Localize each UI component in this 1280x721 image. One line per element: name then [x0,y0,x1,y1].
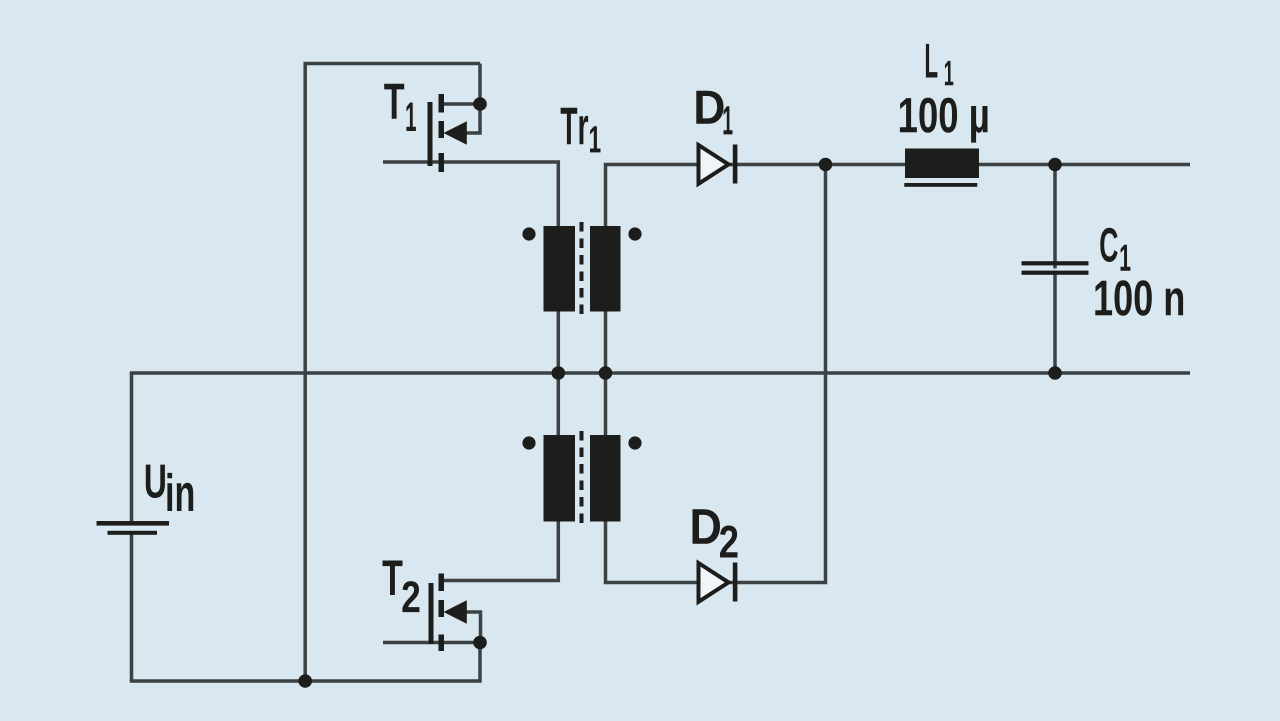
battery Uin [97,521,170,535]
transistor T2 [429,574,467,652]
wire T2 drain line and transformer primary bottom lead [444,373,558,581]
junction node transformer center tap right [599,366,613,380]
label value 100n [1095,280,1183,316]
transformer Tr1 lower primary winding [544,435,576,522]
wire battery lower lead [130,535,134,682]
label L1 [926,44,953,85]
transformer Tr1 upper secondary winding [590,226,621,312]
diode D1 [699,145,738,184]
transistor T1 [428,94,467,172]
junction node D1 output [819,158,833,172]
transformer Tr1 lower secondary winding [590,435,621,522]
wire D1 cathode line [729,163,1190,167]
junction node transformer center tap left [552,366,566,380]
label Tr1 [561,108,601,153]
polarity dot lower secondary [628,436,641,449]
diode D2 [699,563,738,602]
wire bottom rail and T2 source riser [130,643,480,682]
wire T2 gate line [383,641,480,645]
junction node at T1 drain [473,97,487,111]
wire battery upper lead [130,373,134,521]
label value 100u [900,98,988,143]
transformer Tr1 lower core dashed line [580,431,584,525]
wire D2 cathode line and riser to D1 output node [729,165,826,583]
junction node C1 bottom [1048,366,1062,380]
wire T2 body arrow link [466,612,481,643]
polarity dot lower primary [522,436,535,449]
polarity dot upper primary [522,227,535,240]
label D2 [693,509,738,557]
capacitor C1 [1022,261,1089,275]
wire top rail and left vertical [305,64,480,682]
polarity dot upper secondary [628,227,641,240]
wire T1 drain to node [444,102,480,106]
label T2 [383,561,420,613]
wire middle rail [130,371,1190,375]
junction node bottom rail / left vertical [298,674,312,688]
label D1 [696,91,732,135]
transformer Tr1 upper primary winding [544,226,576,312]
label T1 [384,84,416,131]
wire secondary top lead and D1 anode line [606,165,701,374]
label C1 [1100,228,1130,271]
wire T1 node vertical and body arrow link [466,64,480,134]
label Uin [146,465,193,511]
wire T1 gate/source line into transformer primary top lead [383,162,558,373]
junction node L1 output / C1 top [1048,158,1062,172]
inductor L1 [904,149,979,187]
transformer Tr1 upper core dashed line [580,222,584,316]
wire C1 lower lead [1053,271,1057,374]
wire secondary bottom lead and D2 anode line [606,373,701,583]
junction node at T2 source [473,636,487,650]
wire C1 upper lead [1053,165,1057,269]
